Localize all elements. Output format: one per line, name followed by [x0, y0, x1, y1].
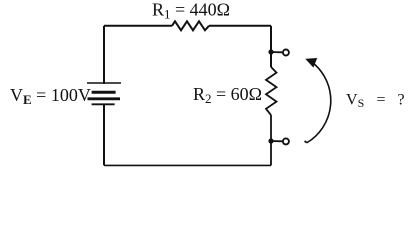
wire: stub to top terminal: [271, 51, 282, 53]
wire: right middle-lower: [270, 115, 272, 141]
wire: right upper: [270, 26, 272, 67]
wire: stub to bottom terminal: [271, 140, 282, 142]
arrow arc for VS: [305, 64, 331, 142]
terminal: bottom (open circle): [283, 138, 289, 144]
wire: right bottom: [270, 141, 272, 165]
wire: left lower: [103, 104, 105, 165]
node: top junction: [268, 49, 273, 54]
resistor R2: [266, 67, 277, 115]
node: bottom junction: [268, 138, 273, 143]
wire: left upper: [103, 26, 105, 84]
battery VE: [87, 83, 121, 104]
terminal: top (open circle): [283, 50, 289, 56]
wire: top-left segment: [104, 25, 172, 27]
wire: top-right segment: [209, 25, 271, 27]
svg-text:R1 = 440Ω: R1 = 440Ω: [152, 0, 230, 22]
resistor R1: [172, 21, 209, 30]
svg-text:VE = 100V: VE = 100V: [10, 85, 91, 107]
arrowhead: [307, 59, 317, 67]
svg-text:R2 = 60Ω: R2 = 60Ω: [193, 84, 262, 106]
wire: bottom: [104, 164, 271, 166]
svg-text:VS=?: VS=?: [346, 92, 405, 111]
